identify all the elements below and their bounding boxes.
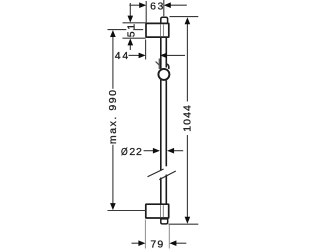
svg-text:22: 22 xyxy=(129,146,142,158)
rail edge seen through top bracket xyxy=(160,24,162,36)
dim max990 bottom extension line xyxy=(108,210,146,212)
dim 1044 line lower part xyxy=(186,135,188,218)
top wall bracket xyxy=(146,23,169,37)
dim diameter22 left arrowhead xyxy=(153,148,160,154)
dim 79 left extension line xyxy=(144,220,146,249)
top end cap of rail xyxy=(161,17,168,23)
dim 51 bottom arrowhead xyxy=(128,38,134,45)
dim diameter22 left tail xyxy=(144,150,154,152)
svg-text:44: 44 xyxy=(115,50,130,62)
rail right edge, top bracket to slider xyxy=(165,37,167,67)
rail right edge, break mark to bottom bracket xyxy=(165,175,167,205)
rail edge seen through bottom bracket xyxy=(160,205,162,217)
break mark upper slash xyxy=(148,169,164,177)
dim 63 right tail xyxy=(170,4,187,6)
dim 51 top extension line xyxy=(123,22,146,24)
hand shower holder (circle) xyxy=(158,69,169,80)
dim diameter22 right tail xyxy=(173,150,183,152)
dim 79 right arrowhead xyxy=(169,240,176,246)
dim max990 line lower part xyxy=(112,145,114,204)
dim 44 right tail xyxy=(167,54,186,56)
rail left edge, slider to break mark xyxy=(160,80,162,170)
dim 79 left arrowhead xyxy=(138,240,145,246)
dim 44 right arrowhead xyxy=(160,53,167,59)
dim 63 right extension line xyxy=(163,0,165,16)
svg-text:Ø: Ø xyxy=(121,146,128,158)
dim 79 right tail xyxy=(176,242,187,244)
dim 63 left arrowhead xyxy=(139,2,146,8)
rail left edge, break mark to bottom bracket xyxy=(160,178,162,205)
dim 1044 top arrowhead xyxy=(185,17,191,24)
rail right edge, slider to break mark xyxy=(165,80,167,166)
dim 79 left tail xyxy=(132,242,140,244)
dim 79 right extension line xyxy=(168,225,170,249)
dim 51 bottom extension line xyxy=(123,37,146,39)
dim 51 line lower part xyxy=(129,44,131,50)
slider release lever xyxy=(156,62,160,66)
rail axis line through bottom bracket xyxy=(162,205,164,217)
dim max990 line upper part xyxy=(112,36,114,89)
dim 1044 top extension line xyxy=(170,16,199,18)
dim max990 top arrowhead xyxy=(110,30,116,37)
dim 63 left extension line xyxy=(145,1,147,23)
dim diameter22 right arrowhead xyxy=(167,148,174,154)
dim 1044 line upper part xyxy=(186,24,188,102)
dim 51 line upper part xyxy=(129,3,131,17)
dim 1044 bottom extension line xyxy=(169,223,199,225)
svg-text:51: 51 xyxy=(125,22,137,37)
rail left edge, top bracket to slider xyxy=(160,37,162,69)
svg-text:63: 63 xyxy=(150,1,165,13)
dim max990 top extension line left part xyxy=(108,29,127,31)
dim max990 top extension line right part xyxy=(133,29,143,31)
break mark lower slash xyxy=(159,171,176,180)
dim 63 left tail xyxy=(129,4,140,6)
dim 1044 bottom arrowhead xyxy=(185,217,191,224)
rail axis line through top bracket xyxy=(162,24,164,36)
slider body edge xyxy=(158,59,160,70)
dim 44 left arrowhead xyxy=(139,53,146,59)
holder clip hook xyxy=(166,64,169,69)
dim 63 right arrowhead xyxy=(164,2,171,8)
svg-text:1044: 1044 xyxy=(182,104,194,132)
bottom wall bracket xyxy=(146,204,169,218)
dim 51 top arrowhead xyxy=(128,16,134,23)
dim max990 bottom arrowhead xyxy=(110,203,116,210)
dim 44 extension line xyxy=(145,40,147,60)
svg-text:79: 79 xyxy=(150,238,164,250)
dim 44 left tail xyxy=(129,54,140,56)
bottom end cap of rail xyxy=(161,219,168,224)
svg-text:max. 990: max. 990 xyxy=(107,89,119,145)
